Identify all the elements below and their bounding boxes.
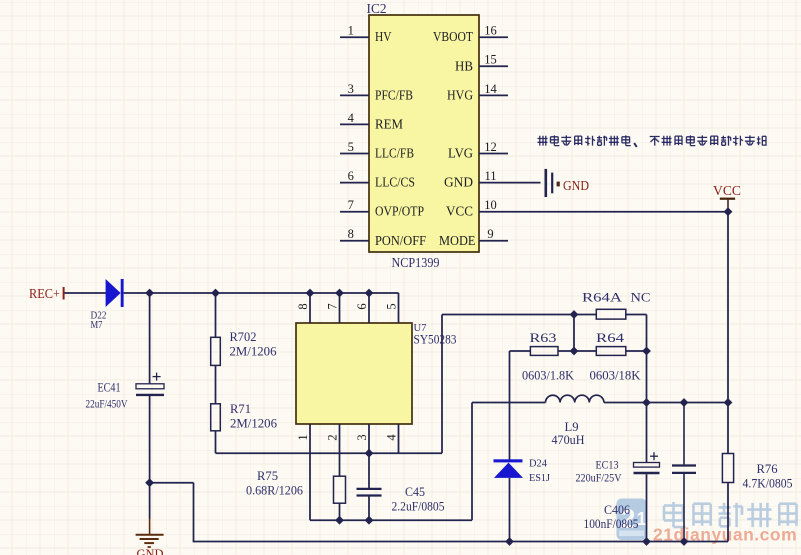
U7 pin 3: [355, 424, 369, 488]
wire R75 to rail: [339, 503, 341, 520]
wire U7 pin4 elbow: [441, 315, 443, 454]
wire R71 down to node row: [216, 431, 443, 453]
junction R76 top: [724, 398, 733, 407]
svg-text:R75: R75: [257, 468, 278, 483]
svg-text:0603/1.8K: 0603/1.8K: [522, 368, 575, 383]
svg-text:0603/18K: 0603/18K: [590, 368, 642, 383]
svg-text:5: 5: [384, 303, 398, 309]
resistor R64A NC: [582, 290, 651, 320]
wire L9 to VCC column: [604, 402, 728, 404]
svg-text:4.7K/0805: 4.7K/0805: [743, 476, 793, 491]
svg-text:6: 6: [355, 303, 369, 309]
svg-text:9: 9: [487, 227, 493, 241]
svg-text:220uF/25V: 220uF/25V: [576, 473, 623, 485]
resistor R63 0603/1.8K: [510, 330, 597, 383]
note text: power supplied externally, no aux winding: [538, 135, 767, 147]
svg-text:OVP/OTP: OVP/OTP: [375, 205, 424, 220]
inductor L9 470uH: [546, 395, 604, 447]
svg-text:4: 4: [384, 434, 398, 441]
op-amp / controller IC2 NCP1399 body: [369, 15, 479, 252]
wire to ground: [149, 483, 151, 519]
junction pin3 node: [365, 449, 374, 458]
U7 pin 5: [384, 293, 398, 323]
wire VCC down: [727, 212, 729, 403]
svg-text:R64: R64: [596, 330, 625, 345]
IC2 pin 4 REM: [340, 111, 404, 133]
resistor R71 2M/1206: [211, 401, 278, 431]
IC2 pin 1 HV: [340, 24, 392, 46]
svg-text:NCP1399: NCP1399: [392, 255, 440, 270]
svg-text:16: 16: [484, 24, 497, 38]
junction U7 pin7: [335, 289, 344, 298]
svg-text:470uH: 470uH: [552, 432, 585, 447]
svg-text:14: 14: [484, 82, 497, 96]
wire GND net elbow: [150, 483, 194, 542]
svg-text:PFC/FB: PFC/FB: [375, 88, 413, 103]
IC2 pin 15 HB: [455, 53, 508, 75]
svg-text:HB: HB: [455, 59, 473, 74]
svg-text:5: 5: [348, 140, 354, 154]
svg-text:GND: GND: [137, 546, 164, 555]
svg-text:8: 8: [296, 303, 310, 309]
U7 pin 6: [355, 293, 369, 323]
svg-text:EC13: EC13: [596, 459, 619, 471]
watermark text shijidianyuanwang: [664, 502, 797, 527]
svg-text:GND: GND: [563, 178, 589, 193]
svg-text:LLC/CS: LLC/CS: [375, 176, 415, 191]
junction U7 pin6: [365, 289, 374, 298]
junction C406 bottom: [680, 537, 689, 546]
svg-text:22uF/450V: 22uF/450V: [86, 399, 129, 411]
resistor R702 2M/1206: [211, 293, 277, 365]
junction U7 pin8: [306, 289, 315, 298]
IC2 pin 12 LVG: [448, 140, 508, 162]
svg-text:7: 7: [348, 198, 354, 212]
svg-text:8: 8: [348, 227, 354, 241]
resistor R76 4.7K/0805: [722, 403, 792, 542]
svg-text:EC41: EC41: [98, 380, 121, 395]
regulator U7 SY50283 body: [296, 323, 412, 424]
U7 pin 1: [296, 424, 310, 520]
junction VCC / pin10: [724, 207, 733, 216]
ground symbol GND bottom: [136, 519, 164, 555]
svg-text:IC2: IC2: [367, 1, 387, 16]
wire R64A right elbow: [626, 315, 647, 403]
svg-text:LLC/FB: LLC/FB: [375, 147, 414, 162]
svg-text:C406: C406: [604, 502, 630, 517]
IC2 pin 11 GND: [444, 169, 541, 191]
svg-text:0.68R/1206: 0.68R/1206: [246, 483, 303, 498]
svg-text:M7: M7: [91, 319, 103, 331]
svg-text:1: 1: [296, 434, 310, 440]
svg-text:R702: R702: [230, 329, 257, 344]
svg-text:10: 10: [484, 198, 497, 212]
U7 pin 8: [296, 293, 310, 323]
svg-text:2: 2: [325, 434, 339, 440]
svg-text:3: 3: [355, 434, 369, 440]
junction R63-R64: [570, 347, 579, 356]
watermark logo 21: [617, 499, 647, 541]
svg-text:LVG: LVG: [448, 147, 473, 162]
svg-text:1: 1: [348, 24, 354, 38]
svg-text:C45: C45: [405, 484, 425, 499]
svg-text:NC: NC: [631, 290, 651, 305]
svg-text:11: 11: [484, 169, 496, 183]
capacitor EC13 220uF/25V: [576, 403, 660, 542]
svg-text:100nF/0805: 100nF/0805: [584, 516, 639, 531]
svg-text:15: 15: [484, 53, 497, 67]
svg-text:MODE: MODE: [439, 234, 476, 249]
junction R75 rail: [335, 516, 344, 525]
port REC+: [29, 286, 64, 301]
svg-text:R64A: R64A: [582, 290, 623, 305]
svg-text:GND: GND: [444, 176, 473, 191]
resistor R64 0603/18K: [590, 330, 647, 383]
IC2 pin 9 MODE: [439, 227, 508, 249]
svg-text:2M/1206: 2M/1206: [230, 416, 277, 431]
svg-text:VCC: VCC: [446, 205, 473, 220]
junction D24 bottom: [505, 537, 514, 546]
wire pin4 row to R64A: [442, 314, 596, 316]
capacitor EC41 22uF/450V: [86, 293, 165, 483]
resistor R75 0.68R/1206: [246, 468, 346, 503]
wire rail to L9: [472, 402, 546, 404]
IC2 pin 8 PON/OFF: [340, 227, 426, 249]
IC2 pin 3 PFC/FB: [340, 82, 413, 104]
wire divider column: [573, 315, 575, 352]
svg-text:VBOOT: VBOOT: [433, 30, 473, 45]
svg-text:HV: HV: [375, 30, 392, 45]
svg-text:ES1J: ES1J: [529, 472, 551, 484]
svg-text:12: 12: [484, 140, 497, 154]
svg-text:PON/OFF: PON/OFF: [375, 234, 426, 249]
junction EC13 top: [642, 398, 651, 407]
svg-text:HVG: HVG: [447, 88, 473, 103]
junction C45 rail: [365, 516, 374, 525]
junction EC13 bottom: [642, 537, 651, 546]
U7 pin 4: [384, 424, 398, 453]
svg-text:REC+: REC+: [29, 286, 60, 301]
IC2 pin 14 HVG: [447, 82, 508, 104]
junction GND branch: [145, 478, 154, 487]
svg-text:7: 7: [325, 303, 339, 309]
svg-text:R76: R76: [757, 461, 778, 476]
svg-text:D24: D24: [529, 458, 547, 470]
wire R63 left down: [509, 351, 511, 460]
IC2 pin 7 OVP/OTP: [340, 198, 424, 220]
svg-text:REM: REM: [375, 117, 404, 132]
junction EC41 branch: [145, 289, 154, 298]
IC2 pin 10 VCC: [446, 198, 728, 220]
power symbol VCC: [713, 183, 741, 212]
svg-text:R71: R71: [230, 401, 251, 416]
ground symbol at IC2 pin 11: [546, 169, 589, 197]
junction R64 right: [642, 347, 651, 356]
IC2 pin 6 LLC/CS: [340, 169, 415, 191]
wire bottom GND rail: [193, 541, 728, 543]
svg-text:3: 3: [348, 82, 354, 96]
diode D22: [91, 279, 124, 331]
wire rail up elbow: [471, 403, 473, 521]
svg-text:R63: R63: [530, 330, 557, 345]
junction R702 branch: [211, 289, 220, 298]
wire bottom local rail: [310, 519, 472, 521]
svg-text:SY50283: SY50283: [414, 332, 457, 347]
svg-text:2.2uF/0805: 2.2uF/0805: [392, 499, 445, 514]
diode D24 ES1J: [494, 458, 551, 485]
wire D24 down: [509, 478, 511, 542]
wire REC+ to diode: [65, 292, 107, 294]
svg-text:2M/1206: 2M/1206: [230, 344, 277, 359]
U7 pin 2: [325, 424, 339, 476]
junction R64A left: [570, 310, 579, 319]
capacitor C406 100nF/0805: [584, 403, 697, 542]
IC2 pin 16 VBOOT: [433, 24, 508, 46]
IC2 pin 5 LLC/FB: [340, 140, 414, 162]
svg-text:4: 4: [348, 111, 355, 125]
svg-text:VCC: VCC: [713, 183, 741, 198]
U7 pin 7: [325, 293, 339, 323]
svg-text:6: 6: [348, 169, 354, 183]
wire R702 to R71: [215, 365, 217, 403]
junction C406 top: [680, 398, 689, 407]
wire diode to rail: [124, 292, 399, 294]
capacitor C45 2.2uF/0805: [357, 484, 445, 520]
